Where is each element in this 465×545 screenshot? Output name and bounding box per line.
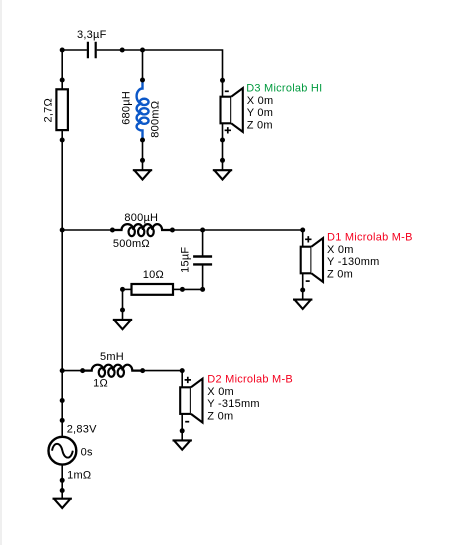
- inductor L2 800µH (horizontal): [112, 224, 172, 230]
- svg-text:X 0m: X 0m: [247, 95, 274, 107]
- svg-text:2,83V: 2,83V: [67, 423, 97, 435]
- resistor R2 10Ω (horizontal): [123, 288, 132, 290]
- wire: bus down to R1: [61, 50, 63, 80]
- svg-text:10Ω: 10Ω: [143, 269, 164, 281]
- ground G2 (under L1): [142, 160, 144, 171]
- wire: R2 left down to ground: [122, 289, 124, 310]
- svg-text:Z 0m: Z 0m: [327, 268, 353, 280]
- svg-text:15µF: 15µF: [180, 247, 192, 273]
- svg-text:1mΩ: 1mΩ: [67, 470, 91, 482]
- wire: bus between rows: [61, 140, 63, 230]
- ground G1 (under D3): [222, 160, 224, 171]
- inductor L1 680µH (blue, vertical): [137, 80, 143, 140]
- svg-text:Z 0m: Z 0m: [207, 411, 233, 423]
- wire: R2 right to cap node: [182, 288, 202, 290]
- wire: L1 to ground: [142, 140, 144, 160]
- svg-text:680µH: 680µH: [120, 91, 132, 125]
- svg-text:Y -315mm: Y -315mm: [207, 398, 260, 410]
- capacitor C1 3,3µF (series, top): [88, 42, 96, 59]
- svg-text:X 0m: X 0m: [327, 244, 354, 256]
- ground G3 (under R2): [122, 309, 124, 320]
- svg-text:2,7Ω: 2,7Ω: [42, 98, 54, 123]
- wire: top net branch down to L1: [142, 50, 144, 80]
- D1 polarity - (bottom): [306, 280, 310, 282]
- svg-text:Z 0m: Z 0m: [247, 120, 273, 132]
- speaker driver D2 symbol: [180, 387, 191, 414]
- svg-text:500mΩ: 500mΩ: [113, 238, 150, 250]
- wire: D3 to ground: [222, 140, 224, 160]
- speaker D2 drop: [181, 414, 183, 431]
- svg-text:D1 Microlab M-B: D1 Microlab M-B: [327, 232, 413, 244]
- speaker driver D1 symbol: [301, 247, 312, 274]
- wire: bottom net: [62, 370, 82, 372]
- wire: cap C2 branch: [202, 230, 204, 256]
- svg-text:Y -130mm: Y -130mm: [327, 256, 380, 268]
- speaker D1 drop: [302, 274, 304, 290]
- svg-text:1Ω: 1Ω: [93, 378, 108, 390]
- D3 polarity - (top): [225, 90, 229, 92]
- capacitor C2 15µF (shunt, vertical): [193, 257, 212, 265]
- junction and pin dots: [60, 48, 306, 494]
- wire: middle net: [62, 229, 112, 231]
- ground G4 (under D1): [302, 289, 304, 300]
- voltage source V1 (sine generator): [49, 437, 77, 465]
- D2 polarity - (bottom): [185, 421, 189, 423]
- D2 polarity + (top): [185, 377, 191, 383]
- ground G5 (under D2): [181, 430, 183, 441]
- resistor R1 2,7Ω (vertical): [61, 80, 63, 89]
- wire: top net from bus to D3 corner: [62, 49, 87, 51]
- wire: bus down to source: [61, 371, 63, 437]
- D3 polarity + (bottom): [225, 127, 231, 133]
- wire: source to ground: [61, 465, 63, 491]
- D1 polarity + (top): [305, 236, 311, 242]
- svg-text:3,3µF: 3,3µF: [77, 29, 107, 41]
- speaker driver D3 symbol: [221, 97, 232, 124]
- window edge strip (left): [0, 0, 2, 545]
- svg-text:D3 Microlab HI: D3 Microlab HI: [246, 82, 322, 94]
- svg-text:X 0m: X 0m: [207, 386, 234, 398]
- inductor L3 5mH (horizontal): [83, 365, 143, 371]
- svg-text:5mH: 5mH: [100, 351, 124, 363]
- svg-text:Y 0m: Y 0m: [247, 107, 273, 119]
- svg-text:D2 Microlab M-B: D2 Microlab M-B: [207, 374, 293, 386]
- ground G6 (under source): [61, 488, 63, 499]
- svg-text:0s: 0s: [81, 447, 93, 459]
- wire: bus to bottom row: [61, 230, 63, 371]
- svg-text:800µH: 800µH: [124, 212, 158, 224]
- svg-text:800mΩ: 800mΩ: [150, 101, 162, 138]
- wire: D3 drop from top net: [222, 78, 224, 97]
- sine symbol: [52, 444, 73, 458]
